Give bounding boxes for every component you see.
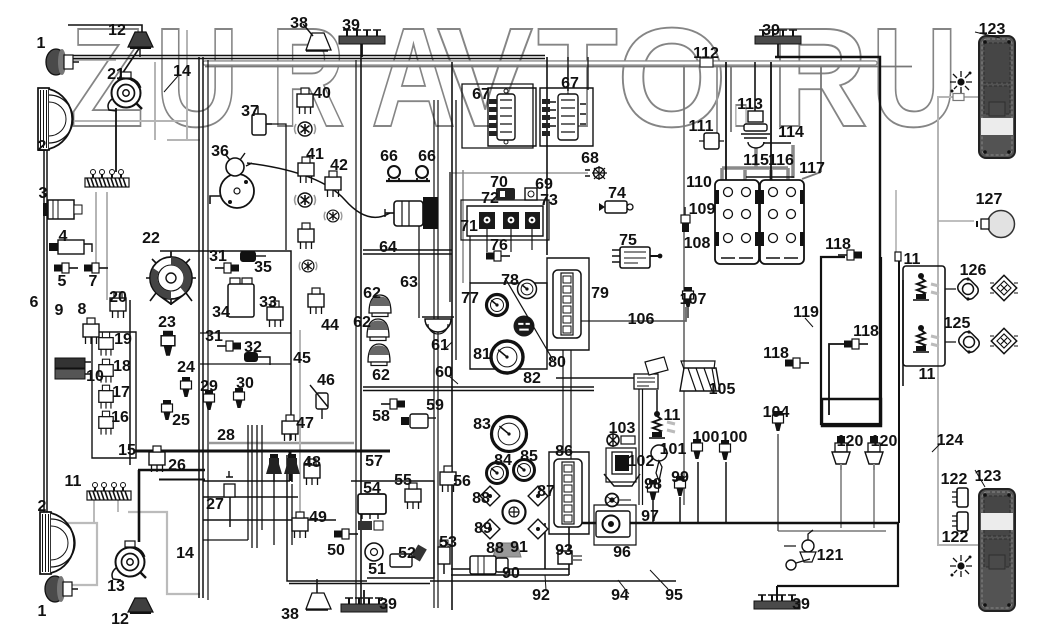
svg-text:126: 126 [960, 262, 987, 279]
svg-text:120: 120 [871, 433, 898, 450]
svg-text:76: 76 [490, 237, 508, 254]
terminal strip 11 top [85, 170, 129, 188]
svg-text:U: U [871, 0, 958, 156]
svg-text:44: 44 [321, 317, 339, 334]
wire to 68 [452, 172, 588, 174]
svg-text:28: 28 [217, 427, 235, 444]
connector 88 b [528, 486, 548, 506]
svg-text:53: 53 [439, 534, 457, 551]
svg-text:24: 24 [177, 359, 195, 376]
light switch 67 left [489, 89, 515, 144]
wire [207, 60, 209, 600]
svg-text:14: 14 [173, 63, 191, 80]
fuses 66 [386, 166, 430, 182]
wire 64 pair [363, 250, 452, 254]
svg-text:80: 80 [548, 354, 566, 371]
svg-text:86: 86 [555, 443, 573, 460]
svg-text:56: 56 [453, 473, 471, 490]
svg-text:63: 63 [400, 274, 418, 291]
svg-text:111: 111 [689, 118, 714, 135]
wire 95 [777, 523, 898, 586]
motor 96 [596, 511, 630, 537]
lamp socket 11 lower [913, 325, 939, 352]
svg-text:16: 16 [111, 409, 129, 426]
fuel filter 35 [240, 251, 266, 262]
svg-text:89: 89 [474, 520, 492, 537]
ECU 54 [358, 494, 386, 530]
wire [430, 580, 676, 582]
svg-text:6: 6 [30, 294, 39, 311]
connector 93 [558, 551, 582, 564]
connector 76 [486, 251, 510, 261]
svg-text:60: 60 [435, 364, 453, 381]
svg-text:106: 106 [628, 311, 655, 328]
svg-text:46: 46 [317, 372, 335, 389]
wire [938, 96, 978, 98]
wire [895, 190, 897, 258]
svg-text:52: 52 [398, 545, 416, 562]
sensor 104 [773, 411, 784, 431]
speedometer 83 [492, 417, 527, 452]
svg-text:102: 102 [628, 453, 655, 470]
wire 67 box right [540, 88, 593, 146]
svg-text:100: 100 [693, 429, 720, 446]
relay 90 [470, 556, 508, 574]
wire diagonal [505, 278, 553, 360]
vacuum unit 37 [252, 106, 272, 135]
svg-text:107: 107 [680, 291, 707, 308]
wire [57, 523, 97, 585]
svg-text:90: 90 [502, 565, 520, 582]
svg-text:99: 99 [671, 469, 689, 486]
wire battery feeds [726, 62, 771, 180]
fuse block 79 [553, 270, 581, 338]
connector on wire 124 [953, 94, 964, 101]
wire 115 116 battery jumpers [722, 145, 793, 180]
svg-text:1: 1 [37, 35, 46, 52]
svg-text:112: 112 [693, 45, 719, 62]
switch 70 [496, 188, 515, 200]
svg-text:21: 21 [107, 66, 125, 83]
svg-text:48: 48 [303, 454, 321, 471]
relay 56 [440, 466, 456, 492]
gauge 85 [514, 460, 535, 481]
relay 55 [405, 483, 421, 509]
svg-text:11: 11 [664, 407, 681, 424]
svg-text:118: 118 [853, 323, 879, 340]
front lamp 1 [46, 49, 79, 75]
connector 88 a [480, 486, 500, 506]
svg-text:31: 31 [205, 328, 223, 345]
relay 17 [99, 385, 113, 408]
wire 92 94 box [451, 523, 569, 575]
wire [656, 390, 658, 415]
svg-text:35: 35 [254, 259, 272, 276]
wire marker lamp 127 link [938, 220, 974, 222]
sensor 100 b [720, 440, 731, 460]
ground bar 39 top [339, 30, 385, 44]
connector 91 a [480, 519, 500, 539]
svg-text:12: 12 [108, 22, 126, 39]
ground symbol top right [950, 71, 972, 93]
svg-text:11: 11 [65, 473, 82, 490]
tail light 123 bottom [979, 489, 1015, 611]
ground bar 39 right top [755, 30, 801, 44]
svg-text:32: 32 [244, 339, 262, 356]
wire 114 [763, 142, 791, 144]
svg-text:38: 38 [290, 15, 308, 32]
flasher 42 [324, 210, 342, 222]
svg-text:93: 93 [555, 542, 573, 559]
wire box 96 [594, 505, 636, 545]
switch 52 [390, 544, 427, 567]
svg-text:.: . [731, 0, 751, 156]
relay 33 [267, 301, 283, 327]
lamp 38 top [303, 24, 331, 51]
battery switch 113 [741, 111, 770, 148]
connector 7 [84, 263, 108, 273]
svg-text:30: 30 [236, 375, 254, 392]
lamp socket 11 upper [913, 273, 939, 300]
svg-text:79: 79 [591, 285, 609, 302]
svg-text:71: 71 [460, 218, 478, 235]
wire box 102 [606, 448, 636, 482]
svg-text:36: 36 [211, 143, 229, 160]
switch 53 [438, 540, 450, 574]
wire 37 drop [266, 124, 286, 250]
connector 58 [381, 399, 405, 409]
wire 117 link [746, 176, 794, 178]
wire 119 loop [821, 257, 881, 424]
lamp 38 bottom [306, 593, 331, 610]
wire [289, 583, 430, 585]
wire [159, 479, 205, 481]
wire box 23-35 [200, 251, 291, 440]
svg-text:87: 87 [537, 483, 555, 500]
relay 48 [304, 459, 320, 485]
svg-text:113: 113 [737, 96, 763, 113]
wire [544, 523, 546, 569]
svg-text:8: 8 [78, 301, 87, 318]
svg-text:75: 75 [619, 232, 637, 249]
wire relay box 16-19 [92, 332, 136, 458]
relay 49 [292, 512, 308, 538]
svg-text:108: 108 [684, 235, 711, 252]
wire [716, 62, 718, 133]
svg-text:127: 127 [976, 191, 1003, 208]
plug 118 mid [844, 339, 868, 349]
wire thick horn feed [138, 470, 205, 542]
horn 21 [108, 72, 142, 111]
wire [167, 139, 200, 141]
wire [840, 461, 842, 528]
svg-text:13: 13 [107, 578, 125, 595]
svg-text:59: 59 [426, 397, 444, 414]
svg-text:124: 124 [937, 432, 964, 449]
svg-text:97: 97 [641, 508, 659, 525]
connector 122 b [952, 512, 968, 531]
svg-text:11: 11 [919, 366, 936, 383]
svg-text:15: 15 [118, 442, 136, 459]
svg-text:64: 64 [379, 239, 397, 256]
wire main top run [60, 55, 545, 57]
svg-text:84: 84 [494, 452, 512, 469]
wire [118, 47, 140, 80]
sensor 99 [675, 476, 686, 496]
svg-text:66: 66 [380, 148, 398, 165]
terminal strip 11 bottom [87, 483, 131, 501]
switch 71 [479, 212, 495, 229]
svg-text:50: 50 [327, 542, 345, 559]
svg-text:40: 40 [313, 85, 331, 102]
switch 102 [604, 452, 640, 486]
wire 86 box [549, 452, 589, 534]
stalk switch 74 [599, 201, 633, 213]
wire ground stems [362, 44, 778, 604]
connector 46 [310, 385, 328, 419]
wire 112 harness tube [205, 60, 875, 66]
wire alternator feed [160, 251, 200, 257]
wire lamp links [945, 289, 956, 342]
wire 67 outer housing [462, 84, 533, 148]
washer reservoir 34 [228, 278, 254, 317]
svg-text:95: 95 [665, 587, 683, 604]
wire [62, 59, 116, 61]
buzzer 62 c [368, 344, 390, 366]
lamp box 11 right [903, 266, 945, 366]
sensor 59 [401, 414, 436, 428]
wire 45 harness [299, 330, 301, 528]
svg-text:91: 91 [510, 539, 528, 556]
svg-text:55: 55 [394, 472, 412, 489]
svg-text:94: 94 [611, 587, 629, 604]
svg-text:62: 62 [363, 285, 381, 302]
alternator 22 [146, 252, 196, 305]
svg-text:101: 101 [660, 441, 687, 458]
relay 43 [298, 223, 314, 249]
wire 38 feed [316, 579, 318, 598]
wire box 49-51 [287, 455, 367, 581]
svg-text:81: 81 [473, 346, 491, 363]
sensor 25 [162, 400, 173, 420]
svg-text:88: 88 [472, 490, 490, 507]
wire ignition harness [247, 163, 390, 217]
ground bar 39 bottom [341, 598, 387, 612]
svg-text:34: 34 [212, 304, 230, 321]
gauge 84 [487, 463, 508, 484]
svg-text:103: 103 [609, 420, 636, 437]
svg-text:69: 69 [535, 176, 553, 193]
relay 41 [298, 157, 314, 183]
marker lamp 127 [977, 211, 1015, 238]
svg-text:73: 73 [540, 192, 558, 209]
svg-text:29: 29 [200, 378, 218, 395]
svg-text:49: 49 [309, 509, 327, 526]
svg-text:115: 115 [743, 152, 769, 169]
svg-text:122: 122 [941, 471, 968, 488]
wire 118 branch [829, 344, 853, 415]
sensor 98 [648, 480, 659, 500]
wire 80 box [547, 258, 589, 350]
connector 111 [699, 133, 724, 149]
svg-text:31: 31 [209, 248, 227, 265]
svg-text:26: 26 [168, 457, 186, 474]
wire [902, 280, 904, 386]
sensor 23 [161, 331, 175, 356]
wire center pair [563, 350, 571, 459]
wire 97 main low run [556, 522, 899, 524]
wire 6 left harness [44, 112, 47, 560]
sensor 107 [683, 287, 694, 307]
connector on wire [895, 252, 901, 261]
wire ground bus vertical [360, 44, 362, 604]
svg-text:38: 38 [281, 606, 299, 623]
solenoid 4 [49, 240, 92, 254]
svg-text:1: 1 [38, 603, 47, 620]
svg-text:54: 54 [363, 480, 381, 497]
wire [898, 260, 900, 523]
side lamp 125 [956, 329, 981, 354]
svg-text:62: 62 [353, 314, 371, 331]
connector 125 b [990, 328, 1018, 353]
svg-text:121: 121 [817, 547, 844, 564]
svg-text:100: 100 [721, 429, 748, 446]
ignition lock 89 [503, 501, 526, 524]
wire [62, 120, 187, 122]
wire [776, 586, 778, 602]
svg-text:78: 78 [501, 272, 519, 289]
connector 126 b [990, 275, 1018, 300]
wire 106 [565, 307, 686, 321]
svg-text:67: 67 [561, 75, 579, 92]
spark plug 31 lower [217, 341, 241, 351]
wire [203, 539, 248, 541]
wire [455, 100, 457, 360]
brake valve 121 [784, 530, 816, 570]
plafond 61 [422, 317, 454, 334]
gauge 77 [487, 295, 508, 316]
wire gauges box [470, 283, 547, 369]
wire [777, 434, 779, 531]
buzzer 62 a [369, 295, 391, 317]
wire harness 14 bottom [128, 512, 200, 594]
wire [106, 192, 108, 300]
svg-text:70: 70 [490, 174, 508, 191]
light switch 67 right [542, 94, 586, 140]
ammeter 81 [491, 341, 523, 373]
svg-text:82: 82 [523, 370, 541, 387]
switch 73 [525, 212, 540, 229]
relay 19 [99, 332, 113, 355]
switch 72 [503, 212, 519, 229]
svg-text:85: 85 [520, 448, 538, 465]
svg-text:47: 47 [296, 415, 314, 432]
relay 40 [297, 88, 313, 114]
relay 42 [325, 171, 341, 197]
svg-text:37: 37 [241, 103, 259, 120]
relay 16 [99, 411, 113, 434]
plug 108 [681, 207, 690, 232]
relay 18 [99, 359, 113, 382]
svg-text:25: 25 [172, 412, 190, 429]
svg-text:104: 104 [763, 404, 790, 421]
sensor 30 [234, 388, 245, 408]
wire 112 drop [683, 62, 685, 505]
svg-text:12: 12 [111, 611, 129, 628]
wire sensor drops [653, 462, 726, 523]
svg-text:39: 39 [342, 17, 360, 34]
connector 27 [224, 471, 235, 497]
plug 118 top [838, 250, 862, 260]
relay 8 [83, 318, 99, 344]
wire center vertical [451, 62, 453, 610]
wire 105 harness [556, 377, 636, 379]
headlight 2 [38, 88, 73, 150]
turn flasher lamp 12 top [128, 32, 153, 57]
buzzer 62 b [367, 319, 389, 341]
connector 5 [54, 263, 78, 273]
wire pair [639, 382, 643, 505]
wire [568, 57, 588, 91]
wire [873, 461, 875, 528]
wire [115, 108, 117, 172]
boot 88 [493, 543, 521, 557]
wire [355, 60, 357, 604]
connector 91 b [528, 519, 548, 539]
wire [200, 333, 291, 364]
svg-text:68: 68 [581, 150, 599, 167]
sensor 29 [204, 390, 215, 410]
svg-text:120: 120 [837, 433, 864, 450]
svg-text:39: 39 [762, 22, 780, 39]
svg-text:7: 7 [89, 273, 98, 290]
wire bundle 47-49 [248, 425, 292, 548]
svg-text:118: 118 [825, 236, 851, 253]
svg-text:27: 27 [206, 496, 224, 513]
plug 118 low [785, 358, 809, 368]
svg-text:2: 2 [38, 138, 47, 155]
wire 27 drop [229, 497, 231, 527]
watermark ZURAVTO.RU [70, 0, 958, 156]
sensor 32 [244, 352, 270, 365]
svg-text:72: 72 [481, 190, 499, 207]
ignition coil 10 [55, 358, 91, 379]
wire 67 feed [546, 57, 548, 255]
leader lines [164, 32, 1000, 594]
wire fuel tank box [822, 399, 881, 426]
wire 67 box left [488, 88, 536, 146]
flasher 43 [299, 260, 317, 272]
wire main left vertical [199, 57, 203, 598]
svg-text:3: 3 [39, 185, 48, 202]
svg-text:22: 22 [142, 230, 160, 247]
nut 97 [606, 494, 632, 507]
svg-text:4: 4 [59, 228, 68, 245]
relay 47 [282, 415, 298, 441]
wire [754, 62, 756, 112]
lamp socket 11 center [649, 411, 675, 438]
wire thick 28 gray [209, 442, 354, 445]
distributor 36 [210, 153, 254, 208]
ignition coil 65 [385, 197, 438, 229]
svg-text:39: 39 [792, 596, 810, 613]
horn 13 [112, 541, 146, 580]
svg-text:57: 57 [365, 453, 383, 470]
svg-text:96: 96 [613, 544, 631, 561]
svg-text:41: 41 [306, 146, 324, 163]
front lamp 1 lower [45, 576, 78, 602]
battery 109 left [715, 180, 759, 264]
